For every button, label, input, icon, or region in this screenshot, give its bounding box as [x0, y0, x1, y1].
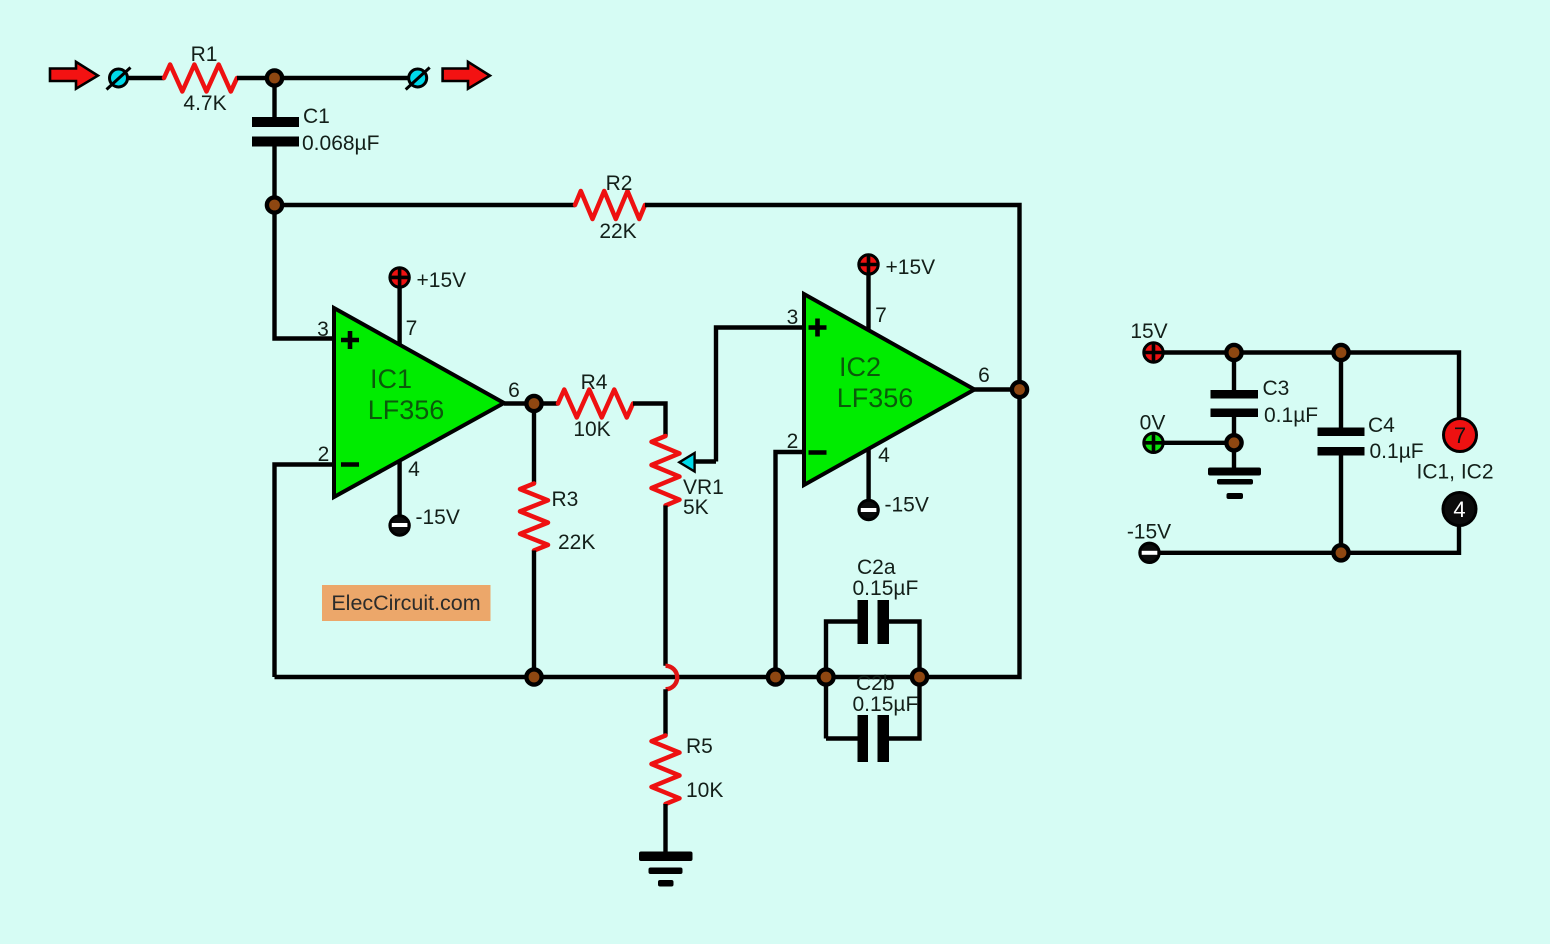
output arrow [443, 62, 490, 89]
svg-text:0.15µF: 0.15µF [853, 693, 919, 716]
15V terminal [1144, 343, 1163, 362]
C3 top lead [1232, 353, 1236, 391]
resistor R3 [520, 484, 548, 551]
svg-text:ElecCircuit.com: ElecCircuit.com [331, 591, 480, 615]
capacitor C1 [252, 117, 299, 147]
node D on bus below R3 [526, 669, 541, 684]
top power rail wire [1164, 353, 1459, 419]
C4 top lead [1339, 353, 1343, 428]
wire hop to R5 [663, 689, 667, 735]
svg-text:0.15µF: 0.15µF [853, 577, 919, 600]
wire node C down to R3 [532, 404, 536, 484]
IC2 non-inverting + symbol [809, 319, 827, 337]
wire R3 to bottom bus [532, 551, 536, 678]
IC1 pin 7 wire [397, 288, 401, 345]
ground symbol [639, 852, 693, 887]
VR1 wiper arrow [679, 453, 716, 472]
svg-text:0.1µF: 0.1µF [1264, 404, 1318, 427]
svg-text:5K: 5K [683, 496, 709, 519]
svg-text:LF356: LF356 [837, 383, 914, 413]
ground symbol right [1208, 468, 1261, 500]
svg-text:-15V: -15V [1127, 521, 1171, 544]
C2a bottom stub [826, 736, 858, 740]
svg-text:10K: 10K [686, 779, 723, 802]
node G on bus, C2 left [818, 669, 833, 684]
node E on bus below IC2 pin 2 [768, 669, 783, 684]
svg-text:0.068µF: 0.068µF [302, 132, 379, 155]
wire R1 to node A [237, 76, 275, 80]
wire R2 to IC2 output node [645, 205, 1020, 390]
svg-text:4: 4 [1453, 497, 1465, 522]
input arrow [50, 62, 98, 89]
svg-text:7: 7 [406, 317, 418, 340]
IC1 non-inverting + symbol [341, 331, 359, 349]
wire input terminal to R1 [128, 76, 164, 80]
potentiometer VR1 [652, 436, 680, 506]
wire R4 to VR1 top [633, 404, 666, 437]
wire node B down to IC1 pin 3 [275, 205, 335, 339]
node I on rail above C3 [1226, 345, 1241, 360]
svg-text:C4: C4 [1368, 414, 1395, 437]
svg-text:7: 7 [875, 304, 887, 327]
ElecCircuit.com watermark [322, 585, 491, 621]
svg-text:-15V: -15V [416, 506, 460, 529]
IC2 -15V power symbol [859, 500, 878, 519]
wire VR1 bottom to hop [663, 506, 667, 666]
svg-text:0V: 0V [1140, 412, 1166, 435]
svg-text:4: 4 [878, 444, 890, 467]
wire VR1 wiper to IC2 pin 3 [716, 328, 804, 462]
pin 7 bubble [1444, 419, 1477, 452]
svg-text:15V: 15V [1130, 320, 1167, 343]
IC1 pin 4 wire [397, 461, 401, 515]
output terminal [406, 68, 430, 90]
svg-text:2: 2 [787, 430, 799, 453]
svg-text:C2a: C2a [857, 556, 896, 579]
svg-text:C3: C3 [1263, 377, 1290, 400]
IC2 +15V power symbol [859, 255, 878, 274]
resistor R2 [575, 191, 645, 219]
svg-text:IC1, IC2: IC1, IC2 [1416, 461, 1493, 484]
capacitor C2a [858, 600, 890, 644]
svg-text:+15V: +15V [417, 269, 467, 292]
svg-text:10K: 10K [573, 418, 610, 441]
0V terminal [1144, 433, 1163, 452]
svg-text:LF356: LF356 [368, 395, 445, 425]
node B [267, 197, 282, 212]
IC2 pin 7 wire [866, 275, 870, 331]
resistor R5 [652, 736, 680, 805]
IC1 -15V power symbol [390, 516, 409, 535]
svg-text:R5: R5 [686, 735, 713, 758]
op-amp IC1 [334, 308, 504, 497]
svg-text:C2b: C2b [856, 672, 895, 695]
svg-text:3: 3 [317, 318, 329, 341]
IC1 +15V power symbol [390, 268, 409, 287]
node F at IC2 output [1012, 382, 1027, 397]
svg-text:2: 2 [318, 443, 330, 466]
svg-text:6: 6 [978, 364, 990, 387]
wire IC2 output to node F [975, 387, 1020, 391]
node J on rail above C4 [1333, 345, 1348, 360]
svg-text:6: 6 [508, 379, 520, 402]
svg-text:IC2: IC2 [839, 352, 881, 382]
svg-text:R2: R2 [606, 172, 633, 195]
node C at IC1 output [526, 396, 541, 411]
node K below C3 [1226, 435, 1241, 450]
-15V terminal [1140, 543, 1159, 562]
svg-text:3: 3 [787, 306, 799, 329]
svg-text:R4: R4 [581, 371, 608, 394]
input terminal [107, 68, 131, 90]
svg-text:IC1: IC1 [370, 364, 412, 394]
svg-text:22K: 22K [558, 531, 595, 554]
wire IC1 pin 2 down to bottom bus [275, 465, 335, 678]
wire node B to R2 [275, 203, 576, 207]
resistor R4 [558, 390, 633, 418]
IC2 inverting - symbol [809, 450, 827, 455]
svg-text:4.7K: 4.7K [183, 92, 226, 115]
svg-text:+15V: +15V [886, 256, 936, 279]
wire node A down to C1 [272, 78, 276, 117]
C2 left branch wire [826, 622, 858, 739]
0V wire to node K [1164, 441, 1234, 445]
bottom bus wire [275, 390, 1020, 678]
svg-text:R1: R1 [191, 43, 218, 66]
wire IC1 output to R4 [504, 401, 558, 405]
wire C1 down to node B [272, 147, 276, 206]
pin 4 bubble [1443, 493, 1476, 526]
C4 bottom lead [1339, 456, 1343, 553]
svg-text:7: 7 [1454, 423, 1466, 448]
wire IC2 pin 2 down to bus [776, 452, 805, 677]
svg-text:R3: R3 [552, 488, 579, 511]
capacitor C3 [1211, 390, 1259, 417]
svg-text:-15V: -15V [885, 494, 929, 517]
wire node A to output terminal [275, 76, 410, 80]
svg-text:C1: C1 [303, 105, 330, 128]
bottom power rail wire [1160, 526, 1459, 553]
capacitor C2b [858, 715, 890, 762]
resistor R1 [164, 65, 237, 92]
svg-text:22K: 22K [599, 220, 636, 243]
C2 right branch wire [889, 622, 920, 739]
IC2 pin 4 wire [866, 448, 870, 500]
C3 bottom lead [1232, 417, 1236, 468]
node A [267, 70, 282, 85]
IC1 inverting - symbol [341, 462, 359, 467]
node L on rail below C4 [1333, 545, 1348, 560]
wire R5 to ground [663, 804, 667, 852]
node H on bus, C2 right [912, 669, 927, 684]
capacitor C4 [1318, 428, 1365, 456]
svg-text:4: 4 [408, 458, 420, 481]
wire hop over bus [666, 666, 678, 689]
op-amp IC2 [804, 294, 975, 485]
